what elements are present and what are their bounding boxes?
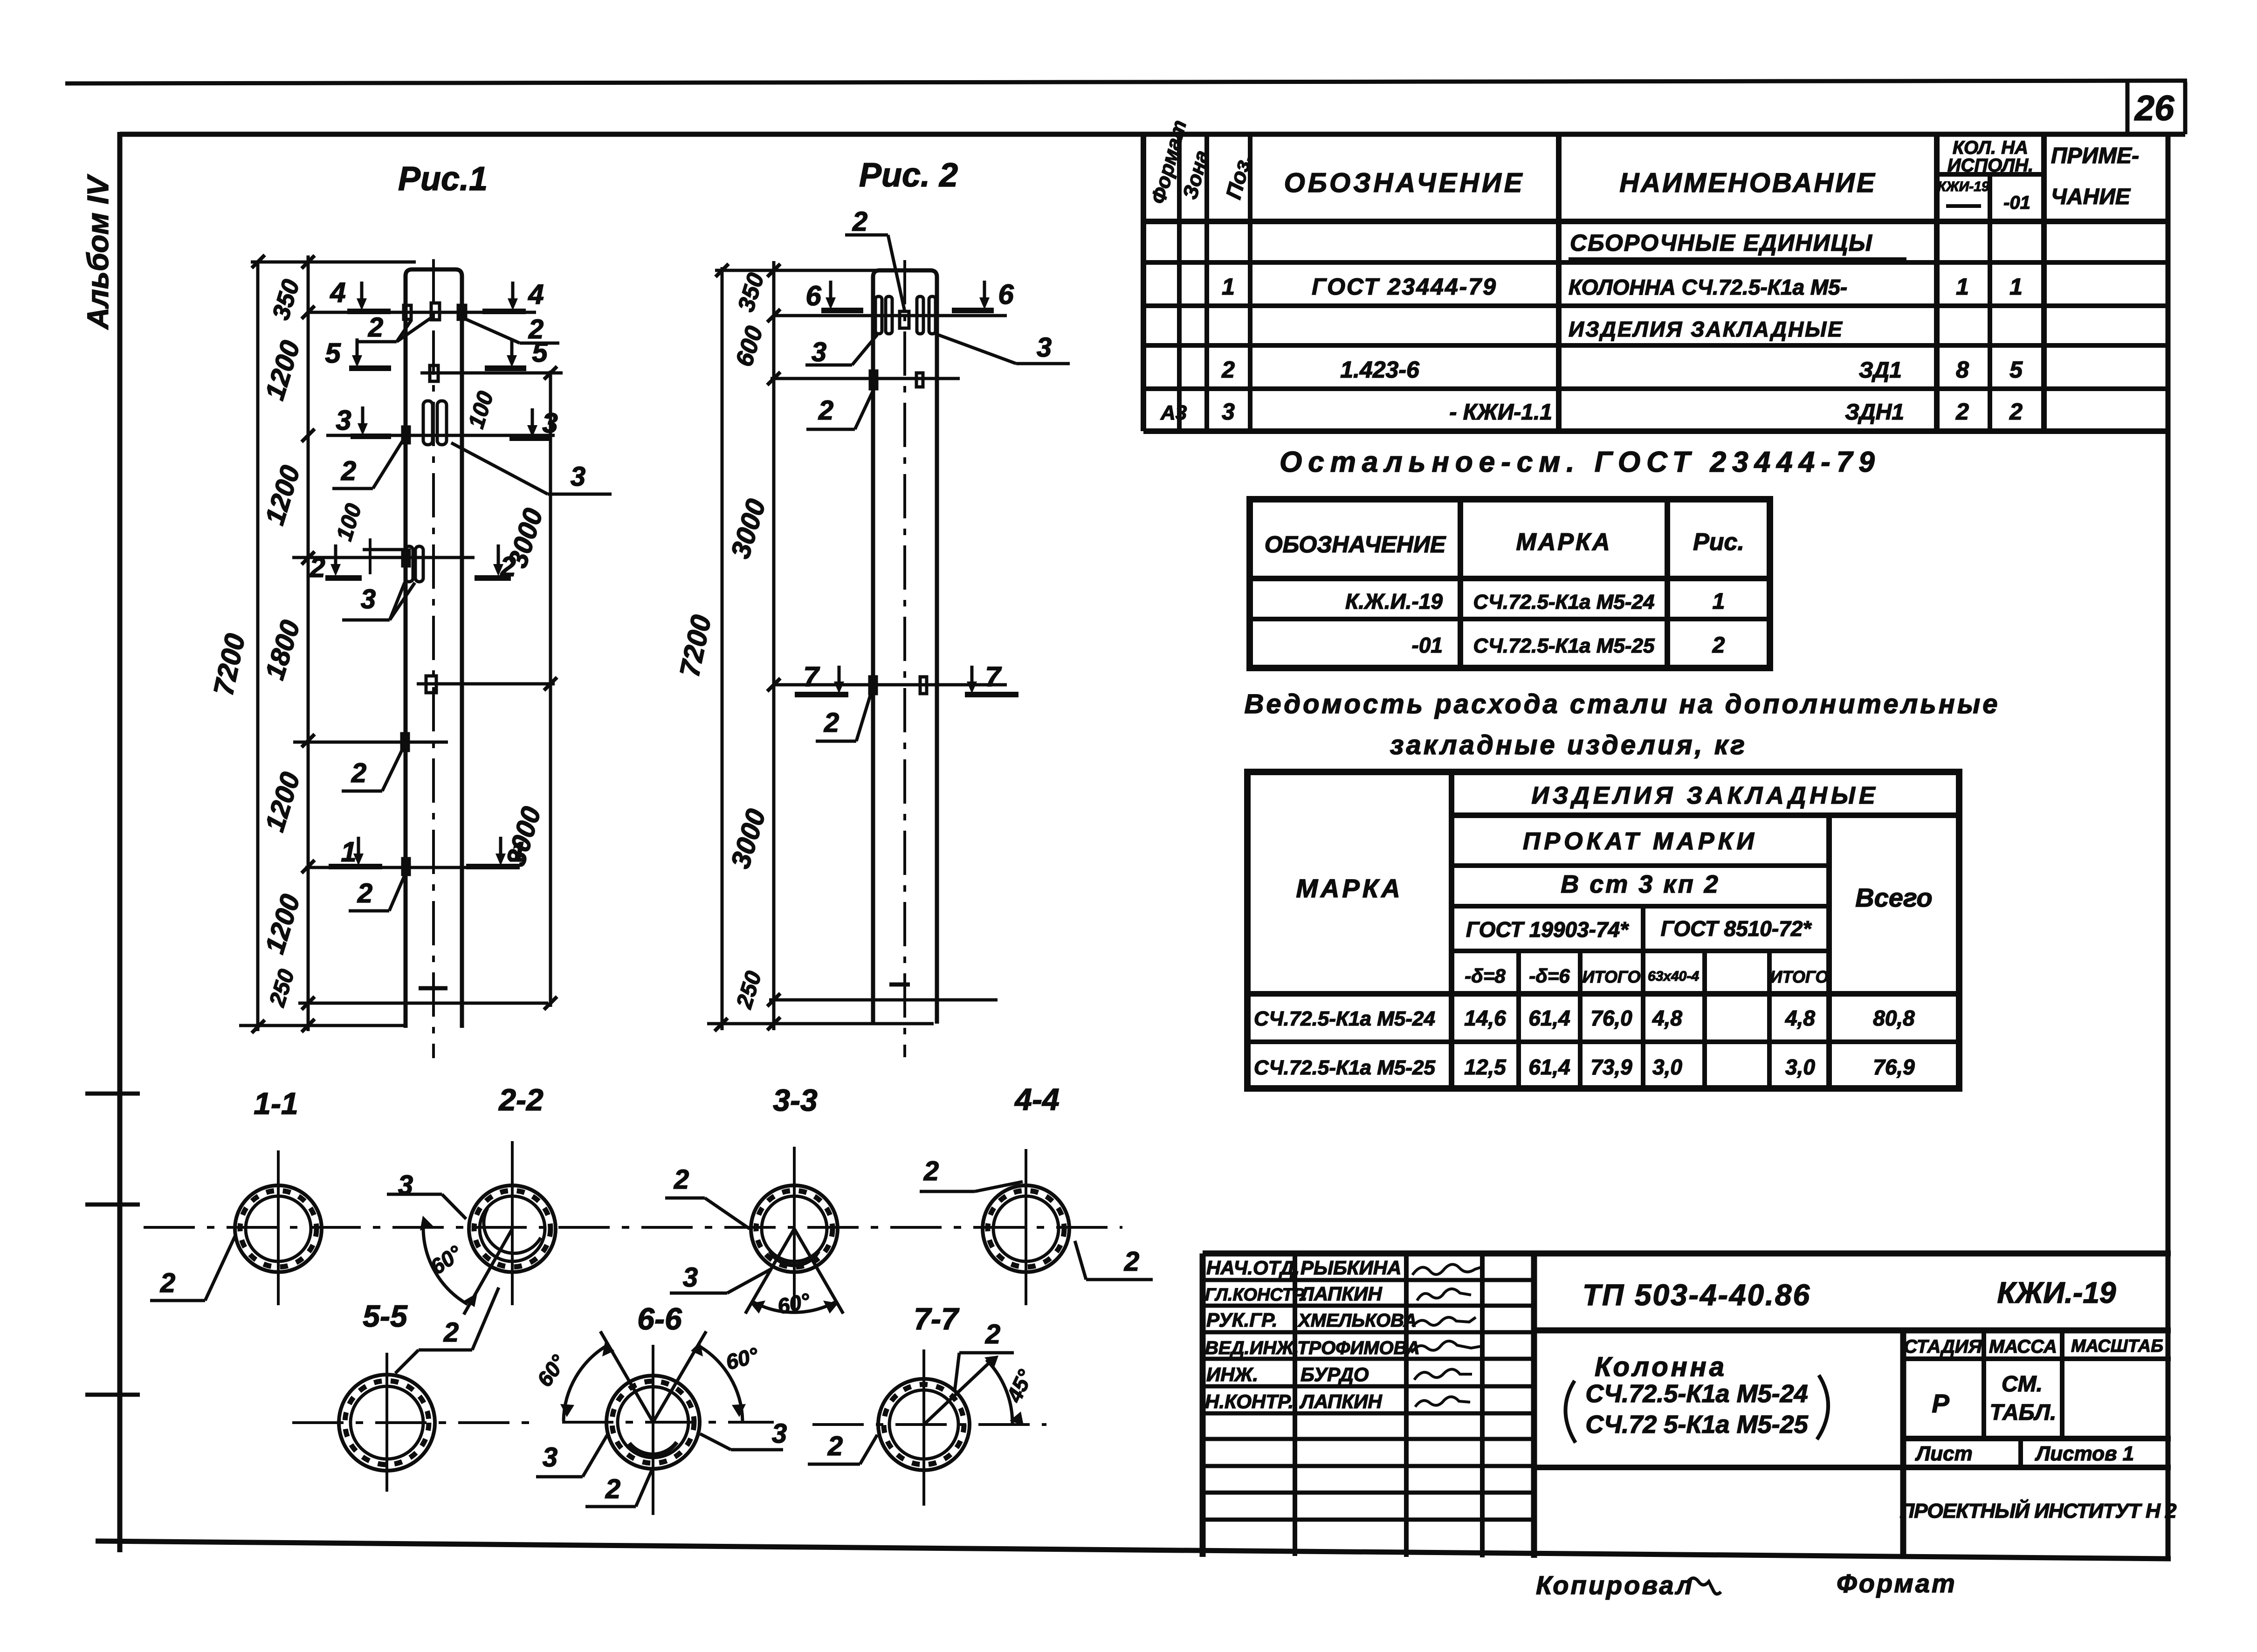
svg-text:МАРКА: МАРКА: [1296, 874, 1403, 903]
svg-text:3: 3: [571, 461, 585, 492]
svg-text:К.Ж.И.-19: К.Ж.И.-19: [1345, 589, 1443, 613]
svg-text:ВЕД.ИНЖ.: ВЕД.ИНЖ.: [1205, 1338, 1299, 1358]
svg-text:СЧ.72 5-К1а М5-25: СЧ.72 5-К1а М5-25: [1585, 1411, 1808, 1439]
svg-text:4,8: 4,8: [1652, 1006, 1682, 1030]
svg-text:ИСПОЛН.: ИСПОЛН.: [1947, 155, 2034, 176]
svg-text:ЛАПКИН: ЛАПКИН: [1299, 1283, 1383, 1305]
svg-text:СБОРОЧНЫЕ ЕДИНИЦЫ: СБОРОЧНЫЕ ЕДИНИЦЫ: [1570, 230, 1873, 256]
svg-text:80,8: 80,8: [1873, 1006, 1915, 1030]
svg-text:Ведомость расхода стали на доп: Ведомость расхода стали на дополнительны…: [1244, 689, 2000, 719]
svg-text:РУК.ГР.: РУК.ГР.: [1206, 1309, 1278, 1331]
svg-text:- КЖИ-1.1: - КЖИ-1.1: [1449, 400, 1552, 425]
svg-text:СТАДИЯ: СТАДИЯ: [1904, 1336, 1982, 1357]
svg-text:НАЧ.ОТД.: НАЧ.ОТД.: [1206, 1257, 1300, 1279]
svg-text:-δ=8: -δ=8: [1465, 965, 1506, 987]
svg-text:7-7: 7-7: [914, 1301, 960, 1336]
svg-text:БУРДО: БУРДО: [1301, 1363, 1369, 1385]
svg-text:-01: -01: [1412, 633, 1443, 657]
svg-text:Лист: Лист: [1915, 1442, 1973, 1465]
svg-text:2: 2: [1955, 399, 1969, 425]
svg-text:2: 2: [160, 1268, 175, 1298]
svg-text:2: 2: [605, 1474, 620, 1504]
svg-text:2: 2: [351, 758, 366, 788]
svg-text:6: 6: [998, 279, 1014, 310]
svg-text:2: 2: [357, 878, 372, 909]
svg-text:ОБОЗНАЧЕНИЕ: ОБОЗНАЧЕНИЕ: [1284, 168, 1525, 198]
svg-text:2: 2: [309, 552, 325, 583]
svg-text:1.423-6: 1.423-6: [1340, 357, 1420, 383]
svg-text:3: 3: [683, 1262, 698, 1293]
svg-text:ОБОЗНАЧЕНИЕ: ОБОЗНАЧЕНИЕ: [1265, 531, 1446, 558]
svg-text:1: 1: [510, 836, 526, 867]
svg-text:3: 3: [772, 1418, 787, 1449]
svg-text:2: 2: [500, 551, 516, 582]
svg-text:Рис.1: Рис.1: [398, 160, 488, 198]
svg-text:8: 8: [1956, 357, 1969, 383]
svg-text:2: 2: [1712, 633, 1725, 658]
svg-text:26: 26: [2134, 89, 2174, 128]
svg-text:ТАБЛ.: ТАБЛ.: [1989, 1400, 2056, 1425]
svg-text:2: 2: [1221, 357, 1235, 383]
svg-text:КЖИ.-19: КЖИ.-19: [1997, 1276, 2116, 1309]
svg-text:3: 3: [542, 407, 557, 439]
svg-text:МАСШТАБ: МАСШТАБ: [2071, 1336, 2163, 1356]
svg-text:КОЛОННА СЧ.72.5-К1а М5-: КОЛОННА СЧ.72.5-К1а М5-: [1569, 275, 1847, 299]
svg-text:СЧ.72.5-К1а М5-24: СЧ.72.5-К1а М5-24: [1473, 591, 1655, 613]
svg-text:ИЗДЕЛИЯ ЗАКЛАДНЫЕ: ИЗДЕЛИЯ ЗАКЛАДНЫЕ: [1531, 782, 1879, 809]
svg-text:Н.КОНТР.: Н.КОНТР.: [1205, 1390, 1294, 1412]
svg-text:СМ.: СМ.: [2002, 1372, 2043, 1397]
svg-text:ИТОГО: ИТОГО: [1770, 967, 1828, 986]
svg-text:2: 2: [341, 456, 356, 486]
svg-text:3: 3: [336, 405, 351, 436]
svg-text:Рис. 2: Рис. 2: [859, 157, 958, 194]
svg-text:Всего: Всего: [1855, 883, 1932, 912]
svg-text:1: 1: [1956, 274, 1969, 300]
svg-text:7: 7: [985, 661, 1002, 692]
svg-text:А3: А3: [1160, 401, 1187, 424]
svg-text:Копировал: Копировал: [1536, 1570, 1694, 1600]
svg-text:КЖИ-19: КЖИ-19: [1937, 179, 1989, 194]
svg-text:РЫБКИНА: РЫБКИНА: [1301, 1257, 1401, 1279]
svg-text:2-2: 2-2: [498, 1082, 544, 1117]
svg-text:1: 1: [341, 836, 356, 867]
svg-text:14,6: 14,6: [1464, 1006, 1506, 1030]
svg-text:СЧ.72.5-К1а М5-24: СЧ.72.5-К1а М5-24: [1585, 1380, 1808, 1408]
svg-text:5: 5: [325, 337, 341, 369]
svg-text:2: 2: [923, 1156, 939, 1186]
svg-text:-δ=6: -δ=6: [1529, 965, 1570, 987]
svg-text:Р: Р: [1932, 1389, 1949, 1418]
svg-text:-01: -01: [2003, 193, 2030, 213]
svg-text:ГЛ.КОНСТР.: ГЛ.КОНСТР.: [1205, 1285, 1307, 1305]
svg-text:4-4: 4-4: [1014, 1082, 1059, 1116]
svg-text:Альбом IV: Альбом IV: [81, 174, 115, 330]
svg-text:1-1: 1-1: [254, 1086, 298, 1121]
svg-text:73,9: 73,9: [1590, 1055, 1632, 1079]
svg-text:ЗДН1: ЗДН1: [1845, 400, 1904, 425]
svg-text:2: 2: [368, 312, 383, 343]
svg-text:2: 2: [674, 1164, 689, 1195]
svg-text:СЧ.72.5-К1а М5-25: СЧ.72.5-К1а М5-25: [1254, 1056, 1435, 1079]
svg-text:ПРОКАТ МАРКИ: ПРОКАТ МАРКИ: [1523, 828, 1758, 855]
svg-text:4: 4: [330, 277, 345, 308]
svg-text:2: 2: [818, 395, 833, 426]
svg-text:2: 2: [2009, 399, 2023, 425]
svg-text:ИТОГО: ИТОГО: [1582, 967, 1640, 986]
svg-text:СЧ.72.5-К1а М5-25: СЧ.72.5-К1а М5-25: [1473, 634, 1655, 657]
svg-text:Формат: Формат: [1837, 1569, 1957, 1598]
svg-text:2: 2: [824, 708, 839, 738]
svg-text:ПРОЕКТНЫЙ ИНСТИТУТ Н 2: ПРОЕКТНЫЙ ИНСТИТУТ Н 2: [1900, 1499, 2177, 1522]
svg-text:63х40-4: 63х40-4: [1648, 969, 1699, 984]
svg-text:5-5: 5-5: [363, 1299, 408, 1333]
svg-text:3: 3: [1037, 332, 1052, 363]
svg-text:НАИМЕНОВАНИЕ: НАИМЕНОВАНИЕ: [1619, 168, 1876, 198]
svg-text:3,0: 3,0: [1785, 1055, 1815, 1079]
svg-text:6: 6: [805, 280, 821, 311]
svg-text:3: 3: [1222, 399, 1235, 425]
svg-text:4: 4: [528, 279, 544, 310]
svg-text:3: 3: [543, 1442, 557, 1473]
svg-text:ГОСТ 23444-79: ГОСТ 23444-79: [1312, 274, 1497, 300]
svg-text:закладные изделия, кг: закладные изделия, кг: [1390, 730, 1747, 760]
svg-text:7: 7: [803, 661, 820, 692]
svg-text:ПРИМЕ-: ПРИМЕ-: [2051, 144, 2139, 168]
svg-text:В ст 3 кп 2: В ст 3 кп 2: [1561, 870, 1720, 898]
svg-text:2: 2: [827, 1431, 843, 1461]
svg-text:ЗД1: ЗД1: [1859, 358, 1902, 383]
svg-text:ЛАПКИН: ЛАПКИН: [1299, 1390, 1383, 1412]
svg-text:МАРКА: МАРКА: [1516, 529, 1611, 556]
svg-text:1: 1: [1222, 274, 1235, 300]
svg-text:1: 1: [2009, 274, 2023, 300]
svg-text:ИНЖ.: ИНЖ.: [1206, 1363, 1258, 1385]
svg-text:5: 5: [2009, 357, 2023, 383]
svg-text:3: 3: [361, 584, 376, 614]
svg-text:1: 1: [1713, 589, 1725, 614]
svg-text:ЧАНИЕ: ЧАНИЕ: [2051, 185, 2131, 209]
svg-text:Колонна: Колонна: [1595, 1352, 1727, 1382]
svg-text:Остальное-см. ГОСТ 23444-79: Остальное-см. ГОСТ 23444-79: [1280, 446, 1881, 478]
svg-text:МАССА: МАССА: [1989, 1336, 2057, 1357]
svg-text:2: 2: [443, 1317, 459, 1348]
svg-text:ТРОФИМОВА: ТРОФИМОВА: [1297, 1338, 1420, 1358]
svg-text:2: 2: [852, 206, 867, 237]
svg-text:3-3: 3-3: [773, 1083, 817, 1117]
svg-text:Листов 1: Листов 1: [2035, 1442, 2134, 1465]
svg-text:6-6: 6-6: [637, 1301, 682, 1336]
svg-text:ГОСТ 19903-74*: ГОСТ 19903-74*: [1466, 917, 1629, 942]
svg-text:61,4: 61,4: [1528, 1006, 1570, 1030]
svg-text:4,8: 4,8: [1785, 1006, 1815, 1030]
svg-text:3: 3: [812, 337, 826, 367]
svg-text:2: 2: [985, 1319, 1000, 1349]
svg-text:76,0: 76,0: [1590, 1006, 1632, 1030]
svg-text:СЧ.72.5-К1а М5-24: СЧ.72.5-К1а М5-24: [1254, 1007, 1435, 1030]
svg-text:3,0: 3,0: [1652, 1055, 1682, 1079]
svg-text:2: 2: [1124, 1246, 1139, 1277]
svg-text:2: 2: [528, 314, 544, 344]
svg-text:ИЗДЕЛИЯ ЗАКЛАДНЫЕ: ИЗДЕЛИЯ ЗАКЛАДНЫЕ: [1569, 317, 1844, 341]
svg-text:61,4: 61,4: [1528, 1055, 1570, 1079]
svg-text:Рис.: Рис.: [1693, 529, 1744, 556]
svg-text:ГОСТ 8510-72*: ГОСТ 8510-72*: [1661, 916, 1812, 941]
svg-text:12,5: 12,5: [1464, 1055, 1507, 1079]
svg-text:76,9: 76,9: [1873, 1055, 1915, 1079]
svg-text:ХМЕЛЬКОВА: ХМЕЛЬКОВА: [1297, 1310, 1417, 1331]
svg-text:ТП 503-4-40.86: ТП 503-4-40.86: [1583, 1278, 1811, 1312]
